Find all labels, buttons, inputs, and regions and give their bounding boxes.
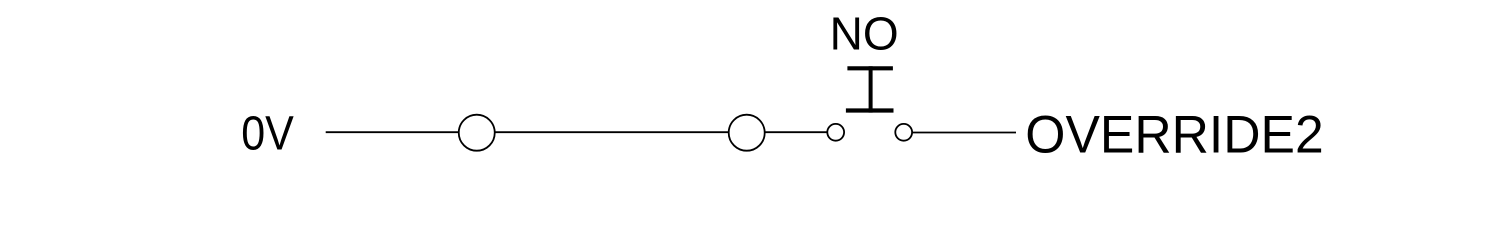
wire from 0V to left terminal bbox=[326, 131, 459, 133]
svg-text:OVERRIDE2: OVERRIDE2 bbox=[1025, 105, 1323, 164]
wire from switch to OVERRIDE2 bbox=[912, 132, 1016, 134]
pushbutton actuator stem bbox=[869, 66, 873, 112]
terminal circle (left) bbox=[459, 115, 495, 151]
pushbutton contact circle (left) bbox=[827, 124, 844, 141]
wire between terminals bbox=[495, 131, 729, 133]
pushbutton actuator bottom bar bbox=[846, 108, 894, 112]
svg-text:NO: NO bbox=[830, 7, 899, 59]
pushbutton actuator top bar bbox=[847, 66, 893, 70]
wire from right terminal to switch contact bbox=[765, 131, 828, 133]
svg-text:0V: 0V bbox=[241, 108, 294, 161]
terminal circle (right) bbox=[729, 115, 765, 151]
pushbutton contact circle (right) bbox=[895, 124, 912, 141]
